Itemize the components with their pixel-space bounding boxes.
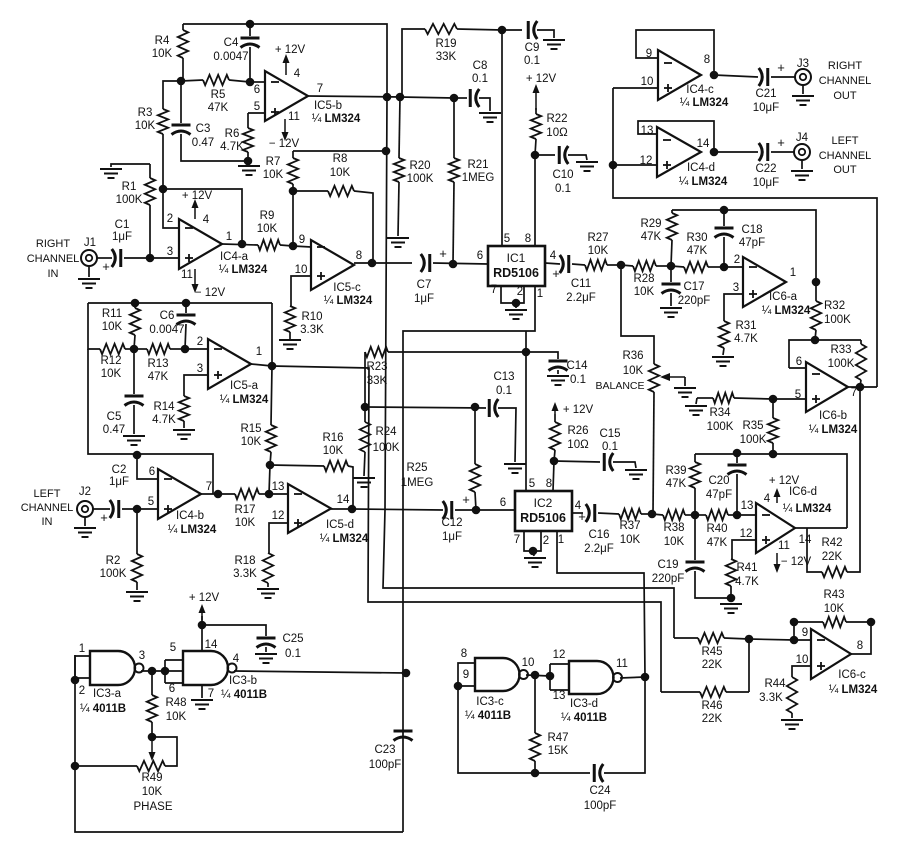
svg-text:3: 3: [139, 650, 145, 662]
ground under R18: [257, 588, 279, 590]
IC3-d input pins 12,13: [550, 663, 569, 665]
svg-text:2.2μF: 2.2μF: [584, 543, 614, 555]
NAND gate IC3-c: [475, 658, 520, 691]
svg-text:R10: R10: [301, 311, 322, 323]
op-amp IC4-d: [657, 127, 701, 177]
svg-text:4: 4: [764, 493, 771, 505]
svg-text:R13: R13: [147, 358, 168, 370]
op-amp IC5-c: [311, 240, 354, 290]
resistor R44: [787, 677, 797, 713]
svg-text:11: 11: [616, 658, 628, 670]
svg-text:IC6-c: IC6-c: [838, 669, 866, 681]
junction dot on top rail at C4: [246, 20, 255, 29]
capacitor C1: [97, 257, 112, 259]
junction dot R48 branch: [148, 667, 157, 676]
op-amp IC6-a: [743, 257, 786, 307]
svg-text:1: 1: [226, 231, 232, 243]
resistor R17: [201, 493, 235, 495]
junction dot IC5-c output: [368, 259, 377, 268]
wire IC6-c output to R43: [851, 622, 871, 654]
wire pin6 of IC6-b: [789, 367, 806, 369]
svg-text:LEFT: LEFT: [832, 135, 859, 147]
svg-text:CHANNEL: CHANNEL: [27, 253, 80, 265]
svg-text:C18: C18: [741, 224, 762, 236]
svg-text:R8: R8: [333, 153, 348, 165]
wire R42 branch from IC6-d output: [807, 528, 822, 572]
svg-text:OUT: OUT: [833, 164, 857, 176]
svg-text:0.1: 0.1: [524, 55, 540, 67]
junction dot C8/R21: [450, 94, 459, 103]
svg-text:C22: C22: [755, 163, 776, 175]
svg-text:2: 2: [734, 254, 740, 266]
NAND gate IC3-b: [183, 651, 228, 685]
wire IC3-a output to IC3-b inputs: [141, 670, 183, 672]
svg-text:IC2: IC2: [534, 496, 553, 510]
svg-text:4.7K: 4.7K: [734, 333, 758, 345]
junction dot C25 branch: [198, 621, 207, 630]
resistor R7: [292, 151, 294, 158]
junction dot IC4-c output: [710, 71, 719, 80]
IC1 pin7/pin2 ground stubs: [501, 286, 524, 303]
capacitor C25: [202, 625, 266, 636]
IC1 RD5106 box: [488, 246, 545, 286]
svg-text:R45: R45: [701, 646, 722, 658]
svg-text:RD5106: RD5106: [493, 266, 539, 280]
IC6-d feedback line R39/C20: [695, 454, 847, 528]
IC1 pin4 output wire: [545, 263, 560, 264]
svg-text:R35: R35: [742, 420, 763, 432]
svg-text:C20: C20: [708, 475, 729, 487]
+12V arrow for R26: [554, 406, 556, 414]
svg-text:R46: R46: [701, 700, 722, 712]
input jack J1: [81, 250, 97, 266]
svg-text:IC5-d: IC5-d: [326, 519, 354, 531]
wire pin10 of IC4-c: [613, 87, 658, 89]
capacitor C14: [526, 352, 558, 359]
svg-text:47pF: 47pF: [706, 489, 732, 501]
resistor R27: [585, 260, 607, 270]
svg-text:100K: 100K: [828, 358, 855, 370]
junction dot IC4-a output: [238, 240, 247, 249]
svg-text:0.47: 0.47: [103, 424, 125, 436]
junction dot R25 top: [471, 403, 480, 412]
svg-text:10Ω: 10Ω: [567, 439, 589, 451]
svg-text:J2: J2: [79, 486, 91, 498]
ground under R6: [248, 161, 249, 166]
wire IC5-c output to C7: [354, 262, 412, 264]
capacitor C17: [670, 266, 672, 282]
svg-text:4: 4: [203, 214, 210, 226]
svg-text:11: 11: [778, 540, 790, 552]
junction dot C1/R1/pin3: [146, 254, 155, 263]
junction dot on buffer input vertical: [609, 161, 618, 170]
svg-text:¼ LM324: ¼ LM324: [680, 97, 729, 109]
wire IC3-c output to IC3-d inputs: [526, 675, 550, 676]
ground for C8: [479, 112, 501, 114]
resistor R3: [158, 109, 168, 134]
svg-text:13: 13: [272, 481, 285, 493]
svg-text:4.7K: 4.7K: [152, 414, 176, 426]
svg-text:R1: R1: [122, 181, 137, 193]
wire C7 node to IC1 pin6: [433, 263, 488, 264]
svg-text:CHANNEL: CHANNEL: [819, 150, 872, 162]
ground under J4: [801, 160, 803, 169]
svg-text:R19: R19: [435, 38, 456, 50]
IC6-a feedback top rail: [672, 210, 816, 282]
svg-text:12: 12: [740, 528, 753, 540]
ground under J2: [84, 517, 86, 526]
potentiometer R36: [649, 364, 659, 392]
svg-text:6: 6: [149, 466, 155, 478]
svg-text:47K: 47K: [208, 102, 229, 114]
resistor R12: [88, 303, 100, 349]
capacitor C12: [443, 501, 447, 519]
IC2 pin1 clock line to IC3-d output: [557, 531, 645, 677]
junction dot R7 bottom / R8 left: [289, 187, 298, 196]
svg-text:R42: R42: [821, 537, 842, 549]
svg-text:IC3-b: IC3-b: [229, 675, 257, 687]
svg-text:4.7K: 4.7K: [220, 141, 244, 153]
svg-text:12: 12: [553, 649, 566, 661]
svg-text:9: 9: [802, 627, 808, 639]
junction dot R26/C15/pin8: [550, 457, 559, 466]
svg-text:R32: R32: [824, 300, 845, 312]
svg-text:6: 6: [477, 250, 483, 262]
resistor R33: [860, 340, 862, 344]
resistor R42: [822, 567, 847, 577]
svg-text:33K: 33K: [367, 375, 388, 387]
svg-text:− 12V: − 12V: [195, 287, 226, 299]
svg-text:C12: C12: [441, 517, 462, 529]
svg-text:C23: C23: [374, 744, 395, 756]
svg-text:10: 10: [295, 264, 308, 276]
resistor R18: [263, 553, 273, 583]
svg-text:C5: C5: [107, 411, 122, 423]
svg-text:10K: 10K: [664, 536, 685, 548]
svg-text:100K: 100K: [824, 314, 851, 326]
ground under C17: [660, 307, 682, 309]
capacitor C8: [454, 97, 467, 99]
ground under IC1: [515, 303, 517, 308]
junction dot C12/R25: [472, 506, 481, 515]
svg-text:220pF: 220pF: [652, 573, 685, 585]
svg-text:5: 5: [170, 642, 176, 654]
capacitor C20: [736, 453, 738, 463]
junction dot IC4-d output: [710, 148, 719, 157]
svg-text:0.0047: 0.0047: [213, 51, 248, 63]
IC3-b input bracket: [164, 660, 166, 683]
svg-text:5: 5: [529, 478, 535, 490]
op-amp IC6-b: [806, 362, 848, 412]
svg-text:R11: R11: [102, 308, 122, 320]
svg-text:+ 12V: + 12V: [563, 404, 594, 416]
output jack J3: [795, 69, 811, 85]
svg-text:10K: 10K: [623, 365, 644, 377]
svg-text:¼ 4011B: ¼ 4011B: [561, 712, 607, 724]
ground under R20: [387, 237, 409, 239]
+12V arrow for IC3-b pin 14: [201, 608, 203, 620]
svg-text:¼ 4011B: ¼ 4011B: [80, 703, 126, 715]
ground under R10: [279, 339, 301, 341]
svg-text:+: +: [100, 510, 108, 525]
svg-text:3: 3: [197, 363, 203, 375]
resistor R19: [402, 29, 425, 97]
svg-text:LEFT: LEFT: [34, 488, 61, 500]
junction dot R35 bottom: [769, 450, 778, 459]
capacitor C13: [488, 399, 491, 417]
svg-text:3: 3: [733, 282, 739, 294]
svg-text:2.2μF: 2.2μF: [566, 292, 596, 304]
wire pin9 of IC5-c: [293, 246, 311, 247]
wire R7 top line to vertical A: [293, 150, 386, 152]
svg-text:C16: C16: [588, 529, 609, 541]
resistor R22: [535, 108, 537, 114]
junction dot R11/R12/R13/C5: [130, 345, 139, 354]
svg-text:IC4-b: IC4-b: [176, 510, 204, 522]
feedback node wire R3 bottom to IC4-a output: [163, 189, 242, 244]
resistor R26: [554, 414, 556, 422]
ground under R2: [126, 591, 148, 593]
svg-text:R33: R33: [830, 344, 851, 356]
svg-text:8: 8: [704, 54, 710, 66]
junction dot R48 bottom: [148, 733, 157, 742]
resistor R48: [151, 671, 153, 695]
svg-text:¼ LM324: ¼ LM324: [762, 305, 811, 317]
capacitor C4: [249, 24, 251, 36]
+12V arrow for R22: [535, 88, 537, 110]
svg-text:10K: 10K: [634, 286, 655, 298]
resistor R14: [179, 396, 189, 421]
svg-text:C9: C9: [525, 42, 540, 54]
svg-text:7: 7: [206, 481, 212, 493]
svg-text:+: +: [552, 266, 560, 281]
junction dot C18 top: [720, 206, 729, 215]
svg-text:R48: R48: [165, 697, 186, 709]
svg-text:R14: R14: [153, 401, 175, 413]
svg-text:10K: 10K: [235, 517, 256, 529]
svg-text:10K: 10K: [152, 48, 173, 60]
junction dot C2/R2/pin5: [133, 505, 142, 514]
wire pin13 of IC6-d: [737, 514, 756, 516]
capacitor C3: [180, 81, 182, 123]
svg-text:10μF: 10μF: [753, 102, 779, 114]
node R4/R5/R3/C3 junction: [177, 77, 186, 86]
junction dot IC3-b output on vertical C: [402, 669, 411, 678]
ground for C9: [543, 39, 565, 41]
junction dot feedback R3: [159, 185, 168, 194]
svg-text:RIGHT: RIGHT: [36, 238, 71, 250]
wire C13 line: [365, 407, 486, 408]
svg-text:47K: 47K: [707, 537, 728, 549]
svg-text:R9: R9: [260, 210, 275, 222]
junction dot R41/C19 ground node: [727, 594, 736, 603]
svg-text:BALANCE: BALANCE: [595, 380, 644, 392]
feedback loop IC4-d pin13 to output: [638, 121, 714, 152]
capacitor C18: [723, 210, 725, 226]
svg-text:IC3-d: IC3-d: [570, 698, 598, 710]
svg-text:¼ LM324: ¼ LM324: [809, 424, 858, 436]
ground under C25: [255, 653, 277, 655]
output jack J4: [794, 144, 810, 160]
svg-text:IC5-a: IC5-a: [230, 380, 259, 392]
junction dot C20 top: [733, 449, 742, 458]
svg-text:100K: 100K: [707, 421, 734, 433]
svg-text:R44: R44: [764, 678, 786, 690]
junction dot R40/C20/pin13: [733, 511, 742, 520]
svg-text:100K: 100K: [100, 568, 127, 580]
svg-text:IC5-c: IC5-c: [333, 282, 361, 294]
svg-text:IN: IN: [48, 268, 59, 280]
svg-text:J1: J1: [84, 237, 96, 249]
capacitor C10: [535, 154, 555, 156]
svg-text:R47: R47: [547, 732, 568, 744]
svg-text:2: 2: [197, 336, 203, 348]
junction dot R49 left node: [71, 762, 80, 771]
resistor R9: [222, 244, 258, 245]
svg-text:RD5106: RD5106: [520, 511, 566, 525]
svg-text:¼ LM324: ¼ LM324: [168, 524, 217, 536]
svg-text:47K: 47K: [666, 478, 687, 490]
capacitor C7: [421, 254, 425, 272]
junction dot R27/R28/balance: [617, 261, 626, 270]
svg-text:8: 8: [546, 478, 552, 490]
svg-text:22K: 22K: [822, 551, 843, 563]
vertical from rail through output to R15: [271, 303, 272, 425]
op-amp IC5-a: [208, 339, 251, 389]
svg-text:13: 13: [553, 690, 566, 702]
svg-text:47K: 47K: [641, 231, 662, 243]
ground under R24: [353, 477, 375, 479]
wire R42 right to IC6-b output node: [847, 387, 860, 572]
ground under C14: [547, 375, 569, 377]
svg-text:7: 7: [514, 534, 520, 546]
junction dot R32 bottom: [811, 336, 820, 345]
junction dot on vertical A at y151: [382, 147, 391, 156]
svg-text:6: 6: [500, 497, 506, 509]
junction dot R23/C14/pin5: [522, 348, 531, 357]
svg-text:R23: R23: [366, 361, 387, 373]
wire pin10 of IC6-c to R44: [792, 666, 811, 677]
junction dot R43 right: [867, 618, 876, 627]
svg-text:R15: R15: [240, 423, 261, 435]
resistor R30: [684, 262, 708, 272]
svg-text:0.1: 0.1: [570, 374, 586, 386]
resistor R2: [136, 509, 138, 554]
op-amp IC5-d: [288, 484, 331, 533]
junction dot R19/C9/IC1 pin5: [498, 26, 507, 35]
svg-text:R41: R41: [736, 562, 757, 574]
junction dot IC3-c input node: [454, 682, 463, 691]
svg-text:R2: R2: [106, 555, 121, 567]
wire pin3 of IC5-a to R14: [184, 375, 208, 396]
op-amp IC6-c: [811, 629, 851, 679]
svg-text:10K: 10K: [620, 534, 641, 546]
+12V arrow for IC6-d pin 4: [776, 492, 778, 503]
svg-text:22K: 22K: [702, 659, 723, 671]
svg-text:C6: C6: [160, 310, 175, 322]
wire pin2 of IC4-a: [163, 189, 179, 228]
ground left of R1: [111, 164, 150, 167]
resistor R45: [674, 637, 698, 639]
svg-text:1: 1: [256, 346, 262, 358]
resistor R5: [181, 80, 203, 81]
svg-text:R12: R12: [100, 355, 121, 367]
wire pin2 of IC5-a: [185, 348, 208, 350]
svg-text:+: +: [777, 135, 785, 150]
svg-text:5: 5: [148, 496, 154, 508]
svg-text:R5: R5: [211, 89, 226, 101]
svg-text:6: 6: [254, 84, 260, 96]
junction dot C6 bottom / pin2: [181, 345, 190, 354]
wire IC5-b output to vertical A: [308, 96, 402, 97]
resistor R25: [474, 407, 476, 464]
svg-text:1: 1: [790, 267, 796, 279]
svg-text:11: 11: [181, 269, 193, 281]
ground under R44: [781, 719, 803, 721]
junction dot R47 bottom: [531, 769, 540, 778]
capacitor C11: [560, 255, 564, 273]
svg-text:IC6-b: IC6-b: [819, 410, 847, 422]
svg-text:14: 14: [337, 494, 350, 506]
svg-text:C21: C21: [755, 88, 776, 100]
svg-text:4: 4: [294, 68, 301, 80]
svg-text:C1: C1: [115, 219, 130, 231]
svg-text:12: 12: [272, 510, 285, 522]
svg-text:14: 14: [799, 534, 812, 546]
resistor R28: [633, 261, 656, 271]
svg-text:+ 12V: + 12V: [526, 73, 557, 85]
junction dot R35 top / pin5: [769, 395, 778, 404]
svg-text:IC6-d: IC6-d: [789, 486, 817, 498]
wire pin12 of IC4-d: [613, 164, 657, 166]
IC3-b input pins 5,6: [165, 659, 183, 661]
R48 to R49 right end wire: [152, 737, 177, 766]
resistor R31: [719, 321, 729, 348]
svg-text:R36: R36: [622, 350, 643, 362]
svg-text:0.1: 0.1: [555, 183, 571, 195]
svg-text:R6: R6: [225, 128, 240, 140]
svg-text:R3: R3: [138, 107, 153, 119]
svg-text:10K: 10K: [241, 436, 262, 448]
svg-text:3.3K: 3.3K: [759, 692, 783, 704]
capacitor C16: [586, 504, 590, 522]
wire pin12 of IC6-d to R41: [732, 540, 756, 559]
junction dot R28/R29/C17/R30: [667, 262, 676, 271]
junction dot R37/R38/balance bottom: [648, 510, 657, 519]
resistor R1: [149, 164, 151, 178]
junction dot IC6-a output: [812, 278, 821, 287]
svg-text:47pF: 47pF: [739, 237, 765, 249]
IC2 RD5106 box: [515, 491, 572, 531]
wire pin12 of IC5-d to R18: [269, 523, 288, 553]
capacitor C2: [93, 508, 110, 510]
feedback rail IC5-a output: [88, 302, 272, 304]
svg-text:R29: R29: [640, 218, 661, 230]
op-amp IC4-b: [158, 469, 201, 519]
long vertical B from IC5-a output to R46: [272, 366, 661, 692]
resistor R47: [534, 675, 536, 733]
svg-text:C15: C15: [599, 428, 620, 440]
IC6-b pin6 feedback line: [789, 340, 861, 368]
svg-text:7: 7: [491, 284, 497, 296]
IC1 pin1 clock line to vertical C: [403, 286, 535, 832]
potentiometer R49: [137, 761, 165, 771]
NAND gate IC3-a: [90, 651, 135, 685]
ground for R36 wiper: [674, 387, 696, 389]
resistor R10: [285, 306, 295, 332]
svg-text:0.1: 0.1: [602, 441, 618, 453]
svg-text:− 12V: − 12V: [269, 138, 300, 150]
